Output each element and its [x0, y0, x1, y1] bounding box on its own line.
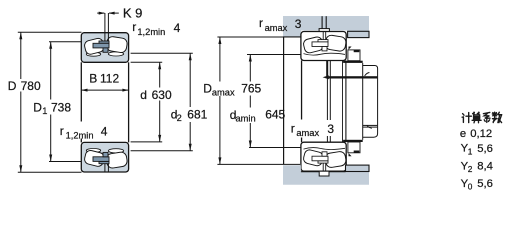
svg-text:r: r [259, 16, 263, 30]
svg-text:1: 1 [468, 146, 473, 156]
svg-text:amax: amax [296, 128, 319, 138]
oil tube bar with arrow tip [329, 76, 378, 78]
abutment step: thick bars [343, 61, 363, 63]
svg-text:1,2min: 1,2min [137, 27, 165, 37]
svg-text:K 9: K 9 [123, 5, 143, 20]
spacer ring top [348, 50, 360, 61]
right view: housing top block [283, 16, 369, 38]
K dimension arrows [97, 12, 119, 15]
dimension Damax 765 [217, 37, 300, 164]
svg-text:amax: amax [212, 87, 235, 97]
dimension damin 645 [247, 55, 301, 148]
housing left shoulder edge line [283, 36, 301, 38]
svg-text:D: D [33, 101, 42, 115]
abutment step horizontals (bottom) [363, 124, 378, 126]
right view: bearing top section (outline) [301, 32, 347, 61]
svg-text:amax: amax [265, 23, 288, 33]
svg-text:r: r [291, 121, 295, 135]
glyph 系 [483, 112, 490, 122]
dimension D1 738 [49, 42, 82, 162]
svg-text:d: d [140, 88, 147, 102]
svg-text:4: 4 [101, 125, 108, 139]
lubrication fitting lines [321, 16, 323, 28]
svg-text:B: B [89, 71, 97, 85]
shaft silhouette line (left of bearing) [283, 37, 285, 164]
bearing left view: bottom half section (mirror) [81, 142, 128, 172]
svg-text:738: 738 [51, 101, 71, 115]
svg-text:amin: amin [236, 114, 256, 124]
svg-text:5,6: 5,6 [477, 178, 493, 190]
right view: housing bottom [283, 165, 369, 185]
lubrication fitting body [319, 29, 329, 33]
dimension D 780 [18, 32, 82, 172]
svg-text:r: r [60, 124, 64, 138]
svg-text:765: 765 [241, 82, 261, 96]
svg-text:e: e [460, 128, 466, 140]
right view: bearing bottom section (mirror) [301, 142, 347, 171]
svg-text:3: 3 [295, 17, 302, 31]
table header 计算系数 (hand-drawn glyphs) [462, 112, 502, 123]
dimension B 112 [81, 89, 128, 92]
svg-text:0,12: 0,12 [470, 128, 492, 140]
abutment step verticals [362, 63, 364, 140]
svg-text:4: 4 [174, 21, 181, 35]
svg-text:5,6: 5,6 [477, 143, 493, 155]
svg-text:1: 1 [42, 106, 47, 116]
svg-text:645: 645 [265, 107, 285, 121]
svg-text:780: 780 [21, 79, 41, 93]
svg-text:630: 630 [152, 88, 172, 102]
dimension d2 681 [131, 53, 193, 151]
svg-text:D: D [8, 79, 17, 93]
spacer ring bottom [348, 142, 360, 153]
svg-text:3: 3 [327, 122, 334, 136]
bore silhouette lines [80, 62, 82, 121]
svg-text:0: 0 [468, 182, 473, 192]
inner ring bore lines (right view) [301, 61, 303, 120]
svg-text:8,4: 8,4 [477, 161, 493, 173]
svg-text:r: r [132, 20, 136, 34]
svg-text:2: 2 [177, 113, 182, 123]
svg-text:681: 681 [187, 108, 207, 122]
housing shoulder lip top [348, 31, 369, 37]
svg-text:112: 112 [100, 71, 119, 85]
bearing left view: top half section [81, 33, 128, 63]
glyph 数 [492, 112, 501, 122]
glyph 算 [472, 112, 481, 123]
oil hole lines K (above bearing) [104, 13, 106, 33]
dimension d 630 [131, 62, 163, 142]
oil duct lines (middle) [326, 61, 328, 77]
svg-text:1,2min: 1,2min [66, 130, 94, 140]
fillet arc bottom [367, 125, 372, 128]
glyph 计 [462, 113, 471, 123]
svg-text:2: 2 [468, 164, 473, 174]
